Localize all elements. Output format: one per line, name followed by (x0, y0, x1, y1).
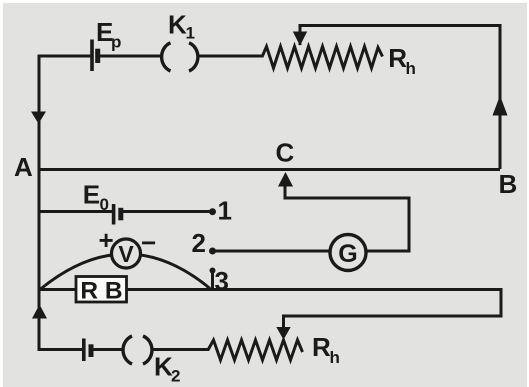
wire: top from left rail to battery Ep (38, 55, 92, 58)
terminal 3 dot (210, 268, 216, 274)
key K1 (162, 43, 198, 71)
svg-text:2: 2 (192, 228, 206, 258)
wire: battery Ep to key K1 (100, 55, 161, 58)
terminal 2 dot (209, 248, 216, 255)
wire: key K2 to bottom rheostat (153, 348, 210, 351)
key K2 (123, 336, 152, 364)
svg-text:C: C (276, 137, 295, 167)
wire: potentiometer wire A to B (39, 168, 500, 171)
svg-text:E: E (83, 180, 100, 210)
galvanometer G (330, 235, 366, 271)
wire: left rail to resistance box RB (38, 288, 78, 291)
rheostat Rh bottom (zigzag) (208, 340, 303, 360)
wire: left rail to battery E0 (38, 210, 113, 213)
wire: left rail A-side (38, 55, 41, 352)
svg-text:V: V (118, 241, 134, 267)
wire: bottom bus to wiper of bottom rheostat (284, 315, 503, 318)
wire: bottom wiper stem (282, 315, 285, 329)
wire: resistance box RB to right rail (126, 288, 501, 291)
wire: right side down to galvanometer (408, 197, 411, 252)
svg-text:K: K (168, 10, 187, 40)
svg-text:h: h (330, 348, 340, 367)
current arrow up on left rail (bottom) (32, 305, 47, 319)
svg-text:A: A (14, 152, 33, 182)
wire: bottom left rail to battery (38, 348, 83, 351)
voltmeter V (112, 239, 141, 268)
wiper arrow of bottom rheostat (276, 327, 290, 340)
rheostat Rh top (zigzag) (262, 47, 383, 69)
terminal 1 dot (209, 208, 216, 215)
battery (bottom, with K2) (84, 339, 91, 362)
svg-text:h: h (406, 59, 416, 78)
resistance box RB (76, 277, 127, 303)
svg-text:+: + (99, 225, 114, 255)
wire: right rail RB side down (500, 288, 503, 316)
wire: jockey C down and right (285, 184, 409, 198)
svg-text:2: 2 (171, 367, 180, 386)
wire: battery E0 to terminal 1 (123, 210, 210, 213)
svg-text:1: 1 (186, 24, 195, 43)
wire: key K1 to rheostat Rh top (198, 55, 264, 58)
wire: galvanometer G to corner (366, 250, 411, 253)
current arrow up on right rail (493, 96, 508, 116)
wiper arrow of top rheostat (293, 32, 307, 46)
svg-text:R: R (312, 332, 331, 362)
svg-text:1: 1 (218, 196, 232, 226)
current arrow down on left rail (31, 112, 46, 124)
battery Ep (92, 40, 98, 72)
wire: terminal 2 to galvanometer G (213, 250, 331, 253)
svg-text:−: − (141, 228, 156, 258)
svg-text:B: B (499, 169, 518, 199)
wire: bottom battery to key K2 (94, 348, 123, 351)
wire: right rail down to B (499, 24, 502, 169)
jockey arrow at C (278, 172, 293, 187)
svg-text:R B: R B (80, 278, 122, 305)
svg-text:p: p (111, 33, 121, 52)
wire: wiper bus of top rheostat (300, 26, 500, 46)
svg-text:0: 0 (100, 195, 109, 214)
battery E0 (114, 204, 121, 225)
wire: voltmeter arc lead (40, 254, 210, 290)
svg-text:G: G (338, 240, 357, 268)
svg-text:R: R (388, 43, 407, 73)
svg-text:3: 3 (215, 266, 229, 296)
wire: terminal 3 stub (211, 272, 214, 289)
